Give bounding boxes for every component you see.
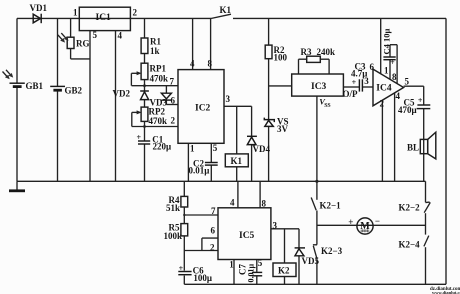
svg-text:6: 6 — [211, 226, 216, 236]
svg-text:0.01μ: 0.01μ — [189, 165, 210, 175]
svg-text:0.01μ: 0.01μ — [247, 264, 256, 283]
svg-text:O/P: O/P — [343, 89, 359, 99]
svg-text:VD5: VD5 — [302, 256, 320, 266]
svg-text:10μ: 10μ — [382, 29, 392, 43]
svg-text:100: 100 — [274, 53, 288, 63]
svg-text:4: 4 — [190, 59, 195, 69]
svg-text:K2−3: K2−3 — [321, 246, 343, 256]
svg-text:1: 1 — [229, 260, 234, 270]
svg-text:SS: SS — [324, 103, 330, 109]
svg-text:100k: 100k — [164, 231, 183, 241]
svg-text:220μ: 220μ — [153, 142, 172, 152]
svg-text:2: 2 — [171, 116, 176, 126]
svg-text:240k: 240k — [317, 47, 336, 57]
svg-text:5: 5 — [405, 77, 410, 87]
svg-text:RG: RG — [76, 39, 90, 49]
svg-text:2: 2 — [210, 243, 215, 253]
svg-text:51k: 51k — [166, 203, 180, 213]
svg-text:IC3: IC3 — [311, 82, 327, 92]
svg-text:3: 3 — [273, 221, 278, 231]
svg-text:GB2: GB2 — [65, 86, 83, 96]
svg-text:+: + — [418, 96, 423, 105]
svg-text:VD4: VD4 — [253, 144, 271, 154]
svg-text:RP1: RP1 — [150, 64, 167, 74]
svg-text:K2−2: K2−2 — [399, 203, 421, 213]
svg-text:1k: 1k — [150, 46, 160, 56]
svg-text:IC5: IC5 — [239, 231, 255, 241]
svg-text:K2−4: K2−4 — [399, 240, 421, 250]
svg-text:5: 5 — [93, 30, 98, 40]
svg-text:IC1: IC1 — [96, 13, 112, 23]
svg-text:1: 1 — [384, 65, 389, 75]
svg-text:K2: K2 — [278, 265, 290, 275]
svg-text:GB1: GB1 — [26, 81, 44, 91]
svg-text:3: 3 — [364, 76, 369, 86]
svg-text:470μ: 470μ — [398, 105, 417, 115]
svg-text:3: 3 — [226, 94, 231, 104]
svg-text:−: − — [375, 216, 380, 226]
svg-text:8: 8 — [262, 199, 267, 209]
svg-text:+: + — [179, 264, 184, 273]
svg-text:4: 4 — [396, 91, 401, 101]
svg-text:8: 8 — [208, 59, 213, 69]
svg-text:K1: K1 — [231, 156, 243, 166]
svg-text:4: 4 — [118, 31, 123, 41]
svg-text:2: 2 — [380, 99, 385, 109]
svg-text:6: 6 — [370, 62, 375, 72]
svg-text:IC2: IC2 — [195, 104, 211, 114]
svg-text:1: 1 — [190, 144, 195, 154]
svg-text:BL: BL — [407, 143, 419, 153]
svg-text:VD2: VD2 — [113, 89, 131, 99]
svg-text:+: + — [348, 217, 353, 227]
svg-text:470k: 470k — [149, 116, 168, 126]
svg-text:K2−1: K2−1 — [320, 201, 342, 211]
svg-text:6: 6 — [171, 96, 176, 106]
svg-text:1: 1 — [73, 8, 78, 18]
svg-text:R1: R1 — [150, 37, 161, 47]
svg-text:470k: 470k — [150, 74, 169, 84]
svg-text:+: + — [352, 78, 357, 87]
svg-text:M: M — [360, 221, 370, 232]
svg-text:+: + — [137, 133, 142, 142]
svg-text:5: 5 — [213, 143, 218, 153]
svg-text:100μ: 100μ — [193, 273, 212, 283]
svg-text:IC4: IC4 — [376, 83, 392, 93]
svg-text:C4: C4 — [382, 43, 392, 54]
svg-text:K1: K1 — [220, 5, 232, 15]
svg-text:+: + — [390, 58, 395, 67]
svg-text:8: 8 — [392, 72, 397, 82]
svg-text:7: 7 — [170, 77, 175, 87]
svg-text:2: 2 — [133, 8, 138, 18]
svg-text:5: 5 — [258, 258, 263, 268]
svg-text:R3: R3 — [301, 47, 312, 57]
svg-text:www.dianlut.com: www.dianlut.com — [432, 290, 460, 294]
svg-text:VD1: VD1 — [30, 3, 48, 13]
svg-text:3V: 3V — [277, 124, 289, 134]
svg-text:7: 7 — [211, 206, 216, 216]
svg-text:4: 4 — [230, 198, 235, 208]
